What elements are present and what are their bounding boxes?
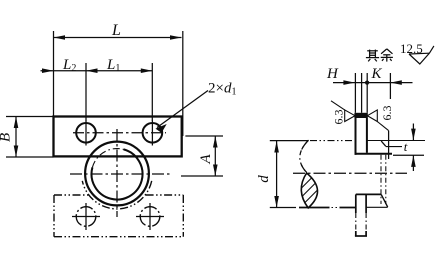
svg-text:L: L	[111, 22, 121, 39]
svg-text:2×d1: 2×d1	[208, 81, 236, 98]
svg-text:H: H	[326, 66, 339, 82]
svg-text:L1: L1	[106, 57, 120, 74]
svg-text:t: t	[404, 139, 408, 154]
svg-text:12.5: 12.5	[400, 41, 423, 56]
svg-text:L2: L2	[62, 57, 76, 74]
svg-text:B: B	[0, 133, 14, 142]
svg-text:6.3: 6.3	[380, 106, 394, 121]
svg-text:A: A	[198, 154, 214, 165]
svg-text:K: K	[371, 66, 383, 82]
svg-text:6.3: 6.3	[331, 110, 345, 125]
svg-text:d: d	[256, 175, 272, 183]
